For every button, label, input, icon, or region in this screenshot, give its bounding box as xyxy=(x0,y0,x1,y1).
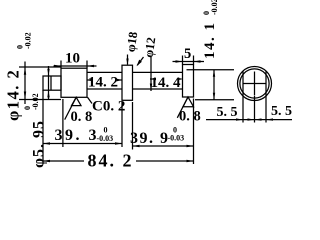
svg-text:φ12: φ12 xyxy=(142,36,159,58)
svg-text:14. 4: 14. 4 xyxy=(151,75,182,91)
svg-text:39. 3: 39. 3 xyxy=(55,127,100,144)
svg-text:φ14. 2: φ14. 2 xyxy=(4,69,23,121)
svg-text:C0. 2: C0. 2 xyxy=(92,99,125,115)
svg-text:0. 8: 0. 8 xyxy=(71,109,93,125)
svg-text:-0.02: -0.02 xyxy=(31,93,40,110)
svg-text:-0.02: -0.02 xyxy=(210,0,219,15)
svg-text:5. 5: 5. 5 xyxy=(217,105,238,120)
svg-text:0. 8: 0. 8 xyxy=(179,109,201,125)
svg-text:-0.03: -0.03 xyxy=(97,134,114,143)
svg-text:-0.02: -0.02 xyxy=(24,32,33,49)
svg-text:14. 1: 14. 1 xyxy=(202,22,218,60)
svg-text:5: 5 xyxy=(184,46,191,62)
svg-text:10: 10 xyxy=(65,51,80,67)
svg-text:φ5. 95: φ5. 95 xyxy=(31,120,48,168)
svg-text:39. 9: 39. 9 xyxy=(130,130,170,147)
svg-text:-0.03: -0.03 xyxy=(168,134,185,143)
svg-text:φ18: φ18 xyxy=(124,31,141,53)
svg-text:5. 5: 5. 5 xyxy=(271,104,292,119)
svg-text:84. 2: 84. 2 xyxy=(88,151,134,169)
svg-text:14. 2: 14. 2 xyxy=(88,75,118,91)
